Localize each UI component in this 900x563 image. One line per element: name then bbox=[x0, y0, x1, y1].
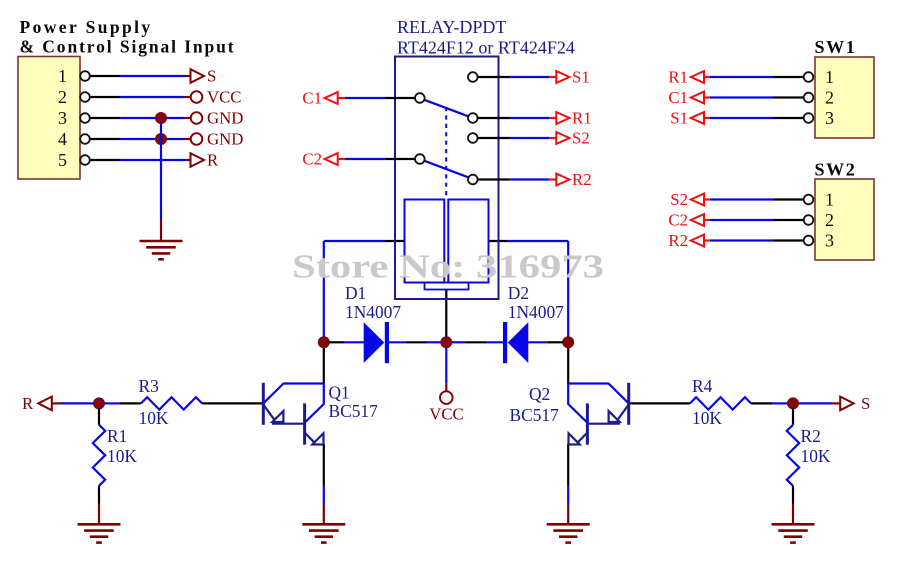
svg-text:D1: D1 bbox=[345, 283, 366, 303]
svg-text:RELAY-DPDT: RELAY-DPDT bbox=[397, 17, 506, 37]
svg-text:10K: 10K bbox=[801, 446, 831, 466]
svg-text:Q2: Q2 bbox=[529, 384, 550, 404]
svg-text:2: 2 bbox=[58, 87, 67, 107]
svg-text:C1: C1 bbox=[668, 88, 688, 107]
svg-text:R1: R1 bbox=[107, 426, 127, 446]
svg-text:R2: R2 bbox=[668, 231, 688, 250]
svg-text:1: 1 bbox=[825, 190, 834, 210]
svg-text:1: 1 bbox=[58, 66, 67, 86]
svg-text:R4: R4 bbox=[692, 376, 713, 396]
svg-text:BC517: BC517 bbox=[329, 401, 379, 421]
svg-text:C2: C2 bbox=[668, 211, 688, 230]
svg-text:2: 2 bbox=[825, 210, 834, 230]
svg-text:S: S bbox=[207, 67, 216, 86]
svg-text:C1: C1 bbox=[302, 88, 322, 107]
svg-text:10K: 10K bbox=[107, 446, 137, 466]
svg-text:10K: 10K bbox=[692, 408, 722, 428]
svg-text:& Control Signal Input: & Control Signal Input bbox=[20, 37, 236, 57]
svg-text:1N4007: 1N4007 bbox=[508, 302, 564, 322]
svg-text:5: 5 bbox=[58, 150, 67, 170]
svg-text:3: 3 bbox=[58, 108, 67, 128]
svg-text:VCC: VCC bbox=[429, 405, 464, 424]
svg-text:R: R bbox=[22, 394, 34, 413]
svg-text:R1: R1 bbox=[572, 109, 592, 128]
svg-text:10K: 10K bbox=[139, 408, 169, 428]
svg-text:Q1: Q1 bbox=[329, 383, 350, 403]
svg-text:4: 4 bbox=[58, 129, 67, 149]
svg-text:3: 3 bbox=[825, 108, 834, 128]
svg-text:GND: GND bbox=[207, 109, 243, 128]
svg-text:S2: S2 bbox=[670, 190, 688, 209]
svg-text:SW2: SW2 bbox=[815, 160, 857, 180]
svg-text:C2: C2 bbox=[302, 149, 322, 168]
svg-text:S1: S1 bbox=[670, 109, 688, 128]
svg-text:2: 2 bbox=[825, 88, 834, 108]
svg-text:1: 1 bbox=[825, 67, 834, 87]
svg-text:R: R bbox=[207, 151, 219, 170]
svg-text:S: S bbox=[861, 394, 870, 413]
svg-text:RT424F12 or RT424F24: RT424F12 or RT424F24 bbox=[397, 38, 575, 58]
svg-text:Power Supply: Power Supply bbox=[20, 17, 153, 37]
svg-text:SW1: SW1 bbox=[815, 37, 857, 57]
svg-text:R3: R3 bbox=[139, 376, 160, 396]
svg-text:GND: GND bbox=[207, 130, 243, 149]
svg-text:R2: R2 bbox=[572, 170, 592, 189]
svg-text:1N4007: 1N4007 bbox=[345, 302, 401, 322]
svg-text:R2: R2 bbox=[801, 426, 821, 446]
svg-text:Store No: 316973: Store No: 316973 bbox=[292, 249, 604, 286]
svg-text:3: 3 bbox=[825, 231, 834, 251]
svg-text:D2: D2 bbox=[508, 283, 529, 303]
svg-text:R1: R1 bbox=[668, 68, 688, 87]
svg-text:S1: S1 bbox=[572, 68, 590, 87]
svg-text:VCC: VCC bbox=[207, 88, 242, 107]
svg-text:BC517: BC517 bbox=[510, 405, 560, 425]
svg-text:S2: S2 bbox=[572, 129, 590, 148]
